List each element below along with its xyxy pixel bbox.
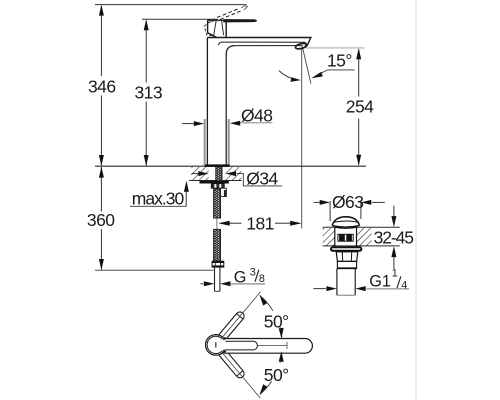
- svg-text:Ø34: Ø34: [246, 169, 278, 189]
- svg-text:15°: 15°: [327, 50, 352, 70]
- svg-text:1: 1: [392, 268, 398, 280]
- svg-text:346: 346: [88, 77, 116, 97]
- svg-text:G1: G1: [369, 273, 391, 291]
- svg-text:313: 313: [135, 83, 163, 103]
- svg-text:8: 8: [259, 273, 265, 285]
- svg-text:4: 4: [401, 279, 407, 291]
- svg-text:G: G: [234, 268, 247, 286]
- svg-text:Ø48: Ø48: [241, 105, 272, 125]
- svg-text:Ø63: Ø63: [332, 192, 363, 212]
- svg-text:254: 254: [346, 97, 374, 117]
- svg-text:32-45: 32-45: [374, 228, 414, 248]
- svg-text:181: 181: [246, 213, 274, 233]
- svg-text:50°: 50°: [264, 311, 289, 331]
- svg-text:50°: 50°: [264, 365, 289, 385]
- svg-text:3: 3: [250, 266, 256, 278]
- svg-text:max.30: max.30: [132, 188, 185, 208]
- svg-text:360: 360: [87, 210, 115, 230]
